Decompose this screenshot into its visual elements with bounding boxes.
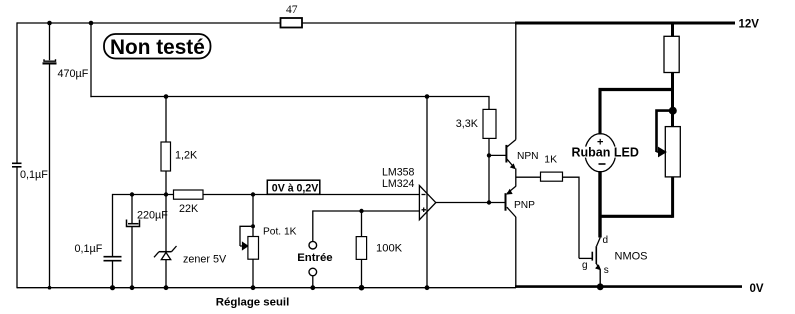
transistor Q2 PNP — [506, 186, 516, 288]
svg-text:22K: 22K — [179, 203, 199, 215]
rheostat P2 body — [665, 127, 680, 177]
label Ruban LED minus sign — [599, 163, 606, 165]
capacitor C3 0,1uF plates — [104, 256, 122, 258]
label box Non teste — [104, 34, 211, 59]
wire opamp supply vertical — [426, 97, 428, 288]
svg-text:3,3K: 3,3K — [456, 118, 479, 130]
svg-text:1,2K: 1,2K — [175, 150, 198, 162]
svg-text:LM358: LM358 — [382, 166, 414, 178]
svg-text:1K: 1K — [544, 155, 557, 166]
node dot 470uF bottom — [48, 286, 52, 290]
svg-text:NMOS: NMOS — [615, 251, 648, 263]
resistor R5 3,3K body — [483, 109, 496, 138]
svg-text:PNP: PNP — [514, 200, 535, 211]
wire NPN base — [489, 154, 506, 156]
svg-text:100K: 100K — [376, 243, 403, 255]
wire 220uF branch lower — [131, 227, 133, 288]
svg-text:47: 47 — [286, 4, 298, 16]
wire top rail thick segment (12V) — [515, 22, 735, 25]
node dot output/base junction — [487, 200, 491, 204]
potentiometer P1 body — [248, 237, 259, 260]
wire top rail thin segment — [17, 22, 516, 24]
wire 100K upper — [361, 211, 363, 237]
capacitor C4 220uF plates — [128, 223, 139, 225]
node dot NPN base junction — [487, 153, 491, 157]
wire zener branch upper — [165, 195, 167, 252]
node dot 0,1uF-2 bottom — [110, 285, 115, 290]
svg-text:NPN: NPN — [517, 151, 539, 162]
wire pot branch lower — [252, 259, 254, 288]
node dot pot bottom — [251, 285, 256, 290]
capacitor C1 0,1uF plates — [12, 162, 22, 164]
wire 220uF branch upper — [131, 195, 133, 224]
resistor R7 body (series LED resistor) — [664, 36, 679, 72]
op-amp U1 minus sign — [422, 194, 426, 196]
wire opamp output — [436, 202, 506, 204]
node dot zener bottom — [164, 285, 169, 290]
node dot 220uF top — [130, 192, 134, 196]
resistor R3 22K body — [174, 190, 204, 199]
wire entree lower vertical — [312, 276, 314, 288]
label box 0V a 0,2V — [267, 180, 320, 194]
LED ribbon circle — [585, 134, 616, 172]
node dot 100K top — [359, 209, 363, 213]
wire 0,1uF-2 branch vertical lower — [112, 262, 114, 288]
resistor R4 100K body — [356, 237, 366, 260]
transistor Q3 NMOS — [592, 238, 601, 287]
svg-text:0,1µF: 0,1µF — [75, 243, 103, 255]
wire left vertical lower — [16, 168, 18, 289]
svg-text:0V: 0V — [750, 283, 764, 295]
node dot bus 1,2K — [164, 94, 169, 99]
svg-text:12V: 12V — [739, 18, 760, 30]
capacitor C2 470uF plates — [44, 59, 56, 61]
wire 3,3K bus corner — [488, 97, 490, 110]
node dot 220uF bottom — [130, 285, 135, 290]
svg-text:Réglage seuil: Réglage seuil — [216, 296, 289, 308]
svg-text:Pot. 1K: Pot. 1K — [263, 226, 297, 237]
node dot 100K bottom — [359, 285, 365, 291]
svg-text:zener 5V: zener 5V — [183, 254, 227, 266]
node dot opamp supply bottom — [425, 285, 430, 290]
label Ruban LED — [569, 147, 641, 158]
wire right branch mid thick — [671, 73, 674, 128]
wire 1,2K lower — [165, 171, 167, 195]
rheostat P2 wiper arrow — [657, 148, 666, 156]
node dot pot wiper tap — [251, 224, 255, 228]
wire emitters to 1K — [516, 176, 541, 178]
resistor R2 1,2K body — [161, 142, 171, 171]
node dot 470uF top — [47, 21, 52, 26]
wire LED branch vertical thick lower (to NMOS drain) — [598, 171, 601, 238]
wire 3,3K lower to output node — [488, 138, 490, 202]
connector entree upper circle — [309, 241, 317, 249]
svg-text:LM324: LM324 — [382, 178, 414, 190]
node dot bus top — [89, 21, 94, 26]
resistor R1 47 body — [281, 18, 303, 28]
node dot rheostat wiper junction — [669, 107, 677, 115]
svg-text:g: g — [582, 260, 588, 271]
wire rheostat bottom vertical thick — [671, 177, 674, 218]
node dot NMOS source on rail — [597, 283, 604, 290]
wire zener branch lower — [165, 260, 167, 288]
wire left vertical upper — [16, 22, 18, 162]
svg-text:Non testé: Non testé — [110, 36, 205, 59]
wire pot branch upper — [252, 195, 254, 237]
svg-text:Ruban LED: Ruban LED — [572, 146, 639, 160]
wire 1K to gate corner — [563, 177, 580, 258]
wire right branch top thick — [671, 22, 674, 36]
svg-text:0,1µF: 0,1µF — [20, 169, 48, 181]
rheostat P2 wiper loop thick — [657, 111, 672, 152]
resistor R6 1K body — [541, 172, 563, 181]
wire bus vertical — [90, 23, 92, 97]
wire 1,2K upper — [165, 97, 167, 143]
transistor Q1 NPN — [506, 22, 515, 187]
node dot zener top — [164, 192, 168, 196]
wire threshold rail horizontal — [113, 194, 420, 196]
wire LED branch horizontal thick — [599, 88, 675, 91]
node dot opamp supply top — [425, 94, 430, 99]
wire drain bottom horizontal thick — [599, 215, 673, 218]
potentiometer P1 wiper loop — [240, 226, 251, 246]
op-amp U1 plus sign — [422, 209, 427, 211]
wire opamp plus input horizontal — [313, 210, 420, 212]
zener diode D1 — [154, 246, 177, 260]
wire LED branch vertical thick upper — [598, 88, 601, 135]
wire 0,1uF-2 branch vertical upper — [112, 194, 114, 256]
connector entree lower circle — [309, 268, 317, 276]
svg-text:s: s — [604, 265, 609, 276]
svg-text:0V à 0,2V: 0V à 0,2V — [272, 182, 319, 194]
op-amp U1 triangle — [419, 186, 435, 220]
svg-text:d: d — [603, 235, 609, 246]
wire 470uF branch upper — [49, 23, 51, 60]
wire bus horizontal — [90, 96, 489, 98]
svg-text:Entrée: Entrée — [297, 252, 332, 264]
wire 100K lower — [361, 259, 363, 287]
potentiometer P1 wiper arrow — [240, 243, 248, 250]
node dot entree bottom — [310, 285, 315, 290]
svg-text:220µF: 220µF — [137, 210, 168, 222]
svg-text:470µF: 470µF — [58, 68, 89, 80]
wire bottom rail thin segment — [17, 287, 516, 289]
wire gate horizontal — [579, 257, 592, 259]
wire bottom rail thick segment (0V) — [515, 285, 742, 288]
wire 470uF branch lower — [49, 65, 51, 289]
node dot pot top — [251, 192, 255, 196]
wire entree upper vertical — [312, 210, 314, 241]
